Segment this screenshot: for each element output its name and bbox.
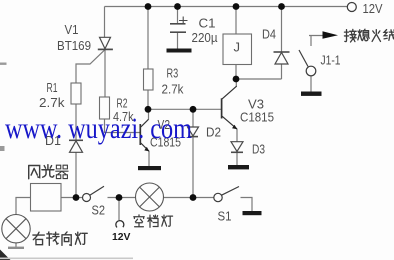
label 接熄火线 (to kill wire)	[344, 29, 356, 42]
diode D1	[69, 140, 83, 152]
CJK hand-drawn labels	[29, 29, 394, 245]
wire J bottom to node	[235, 65, 237, 80]
wire arrow lead	[309, 35, 326, 37]
ground lamp left small	[8, 247, 24, 249]
node bus-J	[233, 3, 240, 10]
wire top bus	[105, 6, 348, 8]
node D1 rail	[73, 194, 80, 201]
node D2 rail	[190, 194, 197, 201]
wire node row mid	[148, 108, 221, 110]
node bus-R3	[145, 3, 152, 10]
svg-text:D4: D4	[262, 27, 276, 42]
label 闪光器 (flasher)	[29, 166, 40, 179]
node R3-V2-V3	[145, 106, 152, 113]
lamp neutral	[136, 183, 164, 211]
wire R3 bottom to node	[147, 90, 149, 109]
wire V2 collector vertical	[148, 109, 150, 119]
svg-text:220µ: 220µ	[192, 30, 218, 45]
arrow to kill wire	[323, 31, 339, 39]
wire V1 gate run	[76, 50, 105, 83]
svg-text:J: J	[234, 40, 241, 55]
svg-text:D3: D3	[252, 142, 265, 157]
wire V1 cathode to R2	[104, 50, 106, 97]
wire D1 to bottom rail	[75, 153, 77, 198]
ground V2 emitter	[138, 166, 161, 170]
wire C1 top	[177, 7, 179, 24]
node J-V3-D4	[233, 76, 240, 83]
wire S1 fixed contact	[241, 198, 253, 212]
label 空档灯 (neutral lamp)	[134, 215, 144, 227]
capacitor C1	[170, 17, 188, 33]
switch J1-1	[299, 50, 316, 76]
bottom streak	[0, 258, 133, 260]
diode D2	[188, 127, 199, 137]
wire bottom rail S2 to lamp	[108, 197, 136, 199]
svg-text:D2: D2	[206, 125, 221, 140]
switch S1	[214, 187, 239, 202]
svg-text:2.7k: 2.7k	[162, 81, 184, 96]
wire V2 emitter vertical	[148, 151, 150, 166]
thyristor V1	[98, 37, 113, 49]
wire J drop	[235, 7, 237, 35]
lamp right turn	[2, 215, 30, 243]
svg-text:R1: R1	[47, 80, 58, 95]
wire 12V tap drop	[118, 198, 120, 221]
label 右转向灯 (right turn lamp)	[33, 232, 44, 245]
svg-text:12V: 12V	[363, 1, 383, 16]
node bus-C1	[174, 3, 181, 10]
resistor R2	[100, 97, 110, 119]
svg-text:S2: S2	[92, 203, 106, 218]
terminal 12V bottom	[116, 221, 124, 228]
resistor R1	[71, 83, 81, 104]
svg-text:J1-1: J1-1	[321, 53, 341, 68]
node bus-D4	[278, 3, 285, 10]
svg-text:2.7k: 2.7k	[39, 95, 65, 110]
svg-text:BT169: BT169	[57, 38, 91, 53]
svg-text:C1815: C1815	[240, 110, 274, 125]
transistor V2	[140, 119, 149, 151]
wire V3 emitter to D3	[236, 129, 238, 142]
wire R3 drop	[147, 7, 149, 70]
ground C1	[167, 49, 192, 53]
node D2 top	[190, 106, 197, 113]
wire V3 collector vertical	[235, 79, 237, 87]
svg-text:S1: S1	[218, 208, 232, 223]
wire left lamp to ground	[15, 243, 17, 247]
wire flasher left to lamp	[16, 198, 31, 216]
wire J1-1 bottom	[310, 76, 312, 92]
diode D3	[231, 142, 243, 153]
wire R1 to D1	[75, 104, 77, 140]
wire D2 top	[192, 109, 194, 126]
switch S2	[83, 186, 105, 201]
svg-text:R3: R3	[167, 65, 179, 80]
wire bottom rail flasher to S2	[61, 197, 83, 199]
flasher box	[31, 184, 62, 212]
wire C1 bottom	[177, 33, 179, 49]
wire D3 to ground	[236, 153, 238, 166]
ground J1-1	[301, 92, 322, 96]
node 12V tap	[116, 194, 123, 201]
wire D2 bottom to rail	[192, 137, 194, 198]
svg-text:R2: R2	[117, 95, 128, 110]
wire node to D4 anode	[236, 78, 282, 80]
svg-text:V1: V1	[65, 22, 79, 37]
transistor V3	[222, 86, 237, 129]
svg-text:C1: C1	[199, 15, 216, 30]
wire bottom rail lamp to S1	[164, 197, 214, 199]
diode D4	[274, 52, 290, 64]
edge mark left	[0, 146, 5, 151]
terminal 12V top	[347, 3, 356, 12]
corner blob	[0, 250, 11, 260]
svg-text:12V: 12V	[112, 231, 131, 243]
wire J1-1 fixed contact	[310, 36, 312, 47]
wire R2 to V2 base	[105, 119, 140, 133]
ground S1	[243, 211, 262, 215]
svg-text:www. wuyazi. com: www. wuyazi. com	[5, 112, 192, 145]
wire D4 bottom	[281, 64, 283, 79]
wire D4 drop	[281, 7, 283, 52]
relay J	[223, 34, 252, 65]
edge mark top-left low	[0, 63, 7, 65]
resistor R3	[144, 69, 154, 90]
ground D3	[228, 165, 249, 169]
wire V1 anode drop	[104, 7, 106, 38]
